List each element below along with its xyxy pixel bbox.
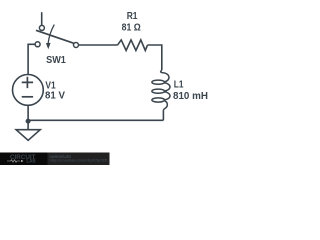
svg-text:LAB: LAB — [26, 159, 36, 165]
svg-text:81 Ω: 81 Ω — [122, 23, 141, 34]
resistor R1 — [117, 40, 147, 51]
inductor L1 — [152, 70, 170, 110]
svg-text:SW1: SW1 — [46, 55, 66, 66]
ground — [16, 120, 40, 140]
svg-text:http://circuitlab.com/c/by925p: http://circuitlab.com/c/by925p7d5t — [50, 159, 109, 163]
switch SW1 — [35, 25, 78, 50]
node: junction dot — [26, 119, 31, 124]
wire: open stub above switch — [41, 12, 43, 25]
svg-text:810 mH: 810 mH — [173, 91, 208, 102]
wire: switch common to resistor — [79, 44, 118, 46]
svg-text:R1: R1 — [127, 11, 138, 22]
CircuitLab watermark bar — [0, 153, 110, 166]
wire: resistor to top-right corner and down — [147, 45, 161, 70]
wire: switch left throw to source top — [28, 44, 35, 74]
svg-text:81 V: 81 V — [45, 91, 65, 102]
voltage source V1 — [13, 75, 44, 106]
svg-text:L1: L1 — [174, 79, 184, 90]
wire: bottom rail — [28, 119, 163, 121]
wire: inductor bottom to bottom rail — [162, 110, 164, 120]
wire: source bottom to ground node — [27, 106, 29, 121]
